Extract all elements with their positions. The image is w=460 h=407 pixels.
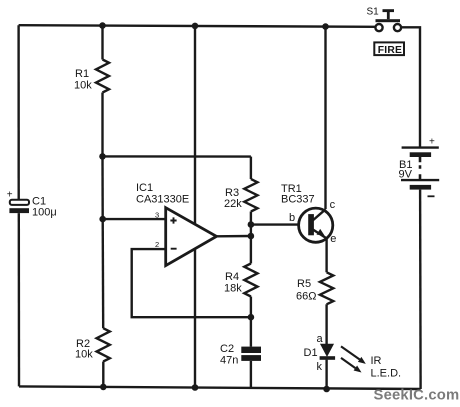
wire battery negative to bottom rail	[419, 190, 422, 389]
svg-text:a: a	[317, 333, 324, 345]
svg-text:10k: 10k	[74, 80, 92, 92]
wire left rail upper	[17, 25, 20, 200]
battery B1 dashed link	[419, 157, 422, 180]
svg-text:R5: R5	[297, 278, 311, 290]
IR emission arrow 1	[341, 346, 360, 359]
wire top rail	[19, 25, 376, 27]
wire R1 top lead	[101, 26, 103, 60]
node D1 bottom junction	[323, 386, 330, 393]
svg-text:66Ω: 66Ω	[296, 291, 316, 303]
svg-text:18k: 18k	[224, 283, 242, 295]
svg-text:D1: D1	[304, 347, 318, 359]
wire left branch node to pin3 node	[101, 156, 104, 219]
node top rail supply junction	[192, 23, 199, 30]
wire pin 2 feedback	[132, 249, 251, 317]
wire op-amp output to node B	[217, 235, 251, 238]
battery B1 cell1 short plate	[410, 152, 431, 157]
resistor R2	[97, 328, 110, 361]
svg-text:IC1: IC1	[136, 182, 153, 194]
capacitor C1 bottom plate	[9, 208, 29, 213]
wire pin3 node to R2 top	[101, 219, 104, 328]
svg-text:L.E.D.: L.E.D.	[371, 368, 402, 380]
svg-text:FIRE: FIRE	[378, 45, 402, 56]
node top rail R1 junction	[99, 22, 106, 29]
LED D1 triangle	[321, 344, 333, 356]
node R2 bottom junction	[100, 384, 107, 391]
svg-text:R1: R1	[75, 68, 89, 80]
wire C2 bottom to bottom rail	[250, 361, 252, 389]
wire R3 bottom lead to node A	[250, 212, 252, 225]
LED D1 cathode bar	[320, 356, 336, 360]
wire left rail lower	[18, 213, 21, 386]
svg-text:9V: 9V	[399, 169, 413, 181]
resistor R1	[96, 60, 109, 93]
wire TR1 emitter to R5 top	[325, 238, 327, 272]
transistor Q1 base bar	[308, 214, 314, 235]
wire op-amp V+ supply from top rail	[194, 26, 196, 224]
wire op-amp V- supply to bottom rail	[194, 249, 196, 388]
node supply bottom junction	[192, 384, 199, 391]
capacitor C2 bottom plate	[241, 355, 261, 361]
wire S1 to right rail	[401, 27, 420, 146]
svg-text:2: 2	[155, 240, 159, 249]
svg-text:k: k	[317, 361, 323, 373]
node C feedback junction	[248, 314, 255, 321]
svg-text:S1: S1	[367, 6, 380, 17]
battery B1 cell2 short plate	[410, 185, 431, 190]
svg-text:R4: R4	[225, 271, 239, 283]
node pin3 junction	[99, 216, 106, 223]
switch S1 actuator bar	[376, 19, 401, 22]
wire R5 bottom to D1 anode	[325, 304, 327, 344]
svg-text:47n: 47n	[220, 355, 238, 367]
transistor Q1 collector stroke	[312, 209, 326, 221]
wire R2 bottom lead	[102, 362, 104, 387]
svg-text:b: b	[289, 212, 295, 224]
switch S1 stem	[387, 11, 390, 19]
wire R3 top lead	[250, 157, 252, 179]
resistor R4	[244, 264, 257, 297]
svg-text:22k: 22k	[224, 198, 242, 210]
wire node A to TR1 base	[251, 223, 310, 225]
wire node A to node B	[250, 225, 252, 237]
wire node B to R4 top	[250, 236, 252, 264]
switch S1 right contact	[394, 24, 401, 31]
capacitor C1 top plate	[10, 200, 29, 205]
svg-text:CA31330E: CA31330E	[136, 194, 189, 206]
wire node R1 to R3 top	[103, 155, 251, 158]
wire node C to C2 top	[250, 317, 252, 346]
wire pin 3 input	[103, 218, 166, 220]
node B output junction	[248, 233, 255, 240]
svg-text:10k: 10k	[75, 349, 93, 361]
IR emission arrow 2	[341, 358, 355, 368]
wire R4 bottom lead to node C	[250, 297, 252, 318]
node A base junction	[248, 221, 255, 228]
node top rail collector junction	[322, 23, 329, 30]
svg-text:100μ: 100μ	[32, 207, 57, 219]
FIRE label box	[374, 42, 404, 55]
wire bottom rail	[19, 386, 421, 389]
wire TR1 collector to top rail	[324, 27, 326, 209]
switch S1 cap	[383, 9, 395, 12]
transistor Q1 emitter arrowhead	[317, 229, 325, 236]
op-amp plus input symbol	[170, 217, 176, 223]
wire R1 bottom lead to node	[101, 93, 103, 157]
svg-text:SeekIC.com: SeekIC.com	[374, 387, 460, 403]
svg-text:BC337: BC337	[281, 194, 315, 206]
svg-text:+: +	[429, 136, 435, 147]
svg-text:e: e	[330, 233, 336, 245]
svg-text:3: 3	[155, 210, 159, 219]
transistor Q1 emitter stroke	[312, 229, 327, 239]
battery B1 cell2 long plate	[401, 179, 439, 181]
battery B1 cell1 long plate	[402, 146, 439, 148]
switch S1 left contact	[375, 24, 382, 31]
battery polarity minus	[428, 195, 435, 197]
op-amp minus input symbol	[171, 248, 177, 250]
svg-text:c: c	[330, 199, 336, 211]
node R1 bottom junction	[99, 153, 106, 160]
resistor R3	[244, 179, 257, 212]
wire D1 cathode to bottom rail	[325, 360, 327, 389]
svg-text:C2: C2	[220, 343, 234, 355]
svg-text:IR: IR	[371, 355, 382, 367]
op-amp U1 triangle	[166, 208, 217, 266]
transistor Q1 circle	[299, 208, 333, 242]
capacitor C2 top plate	[241, 347, 261, 353]
resistor R5	[320, 272, 333, 304]
svg-text:+: +	[7, 190, 13, 201]
